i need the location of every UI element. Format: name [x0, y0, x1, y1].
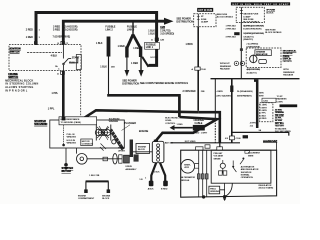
svg-text:1 BLK: 1 BLK: [100, 66, 107, 69]
svg-text:3 PNK BLK: 3 PNK BLK: [226, 36, 237, 38]
svg-text:CONN: CONN: [277, 101, 284, 103]
svg-text:ENGINE: ENGINE: [138, 146, 147, 148]
svg-text:B (W/OVERDRIVE): B (W/OVERDRIVE): [243, 28, 261, 30]
svg-text:2 PNK BLK: 2 PNK BLK: [226, 28, 237, 30]
svg-text:SOLENOID: SOLENOID: [109, 119, 120, 121]
svg-text:SOLENOID: SOLENOID: [34, 123, 47, 126]
svg-text:ENGINE: ENGINE: [78, 195, 87, 197]
svg-text:3 (5-SPEED): 3 (5-SPEED): [160, 33, 174, 36]
svg-text:1 RED: 1 RED: [131, 62, 138, 65]
svg-text:(OVERDRIVE): (OVERDRIVE): [246, 46, 260, 48]
svg-text:SHIFT: SHIFT: [118, 147, 125, 149]
svg-text:8 RED: 8 RED: [260, 118, 267, 120]
svg-text:20 (W/GAUGES): 20 (W/GAUGES): [237, 90, 253, 93]
svg-text:TO GROUND (CASE): TO GROUND (CASE): [61, 121, 82, 124]
svg-text:25B: 25B: [201, 91, 205, 93]
svg-text:25 PPL: 25 PPL: [275, 118, 283, 120]
svg-text:10 AMP: 10 AMP: [243, 15, 251, 18]
svg-text:1 RED: 1 RED: [177, 124, 184, 126]
svg-text:SENSE: SENSE: [214, 158, 222, 160]
svg-text:3 (2-DOOR): 3 (2-DOOR): [65, 28, 78, 31]
svg-text:B (5-SPEED) (W/O OVERDRIVE): B (5-SPEED) (W/O OVERDRIVE): [243, 25, 264, 27]
svg-text:1 WHT: 1 WHT: [201, 133, 208, 135]
svg-text:(W/O GAUGES): (W/O GAUGES): [217, 94, 232, 97]
svg-text:NOT USED: NOT USED: [185, 141, 196, 143]
svg-text:SWITCH: SWITCH: [8, 76, 18, 79]
svg-text:HIGH RESISTANCE: HIGH RESISTANCE: [61, 118, 81, 121]
svg-text:WINDING: WINDING: [67, 137, 77, 139]
svg-text:10 AMP: 10 AMP: [201, 21, 209, 24]
svg-text:1 BLK: 1 BLK: [148, 33, 155, 36]
svg-text:7 (OVERDRIVE): 7 (OVERDRIVE): [53, 35, 71, 38]
svg-text:A CURRENT: A CURRENT: [248, 152, 261, 155]
svg-text:BLOCK DETAILS: BLOCK DETAILS: [217, 16, 234, 19]
svg-text:BLOCK DETAILS: BLOCK DETAILS: [265, 31, 282, 34]
svg-text:FIELD: FIELD: [210, 188, 216, 190]
svg-text:GRY BLK: GRY BLK: [275, 123, 285, 125]
svg-text:LEVER: LEVER: [118, 150, 125, 152]
svg-text:C/CONV FUSE: C/CONV FUSE: [263, 140, 278, 142]
svg-text:1 PNK BLK: 1 PNK BLK: [226, 25, 237, 27]
svg-text:5 RED: 5 RED: [53, 28, 60, 31]
svg-text:2 ORN RED: 2 ORN RED: [183, 90, 196, 93]
svg-text:1 BLK: 1 BLK: [96, 42, 103, 45]
svg-text:TO I/P: TO I/P: [277, 96, 284, 98]
svg-text:GAUGES FUSE: GAUGES FUSE: [243, 13, 259, 16]
svg-text:ATOR: ATOR: [185, 166, 190, 169]
svg-text:WINDING: WINDING: [109, 121, 119, 123]
svg-text:HOT IN RUN: HOT IN RUN: [198, 10, 212, 12]
svg-text:MECHANICAL: MECHANICAL: [283, 49, 297, 52]
svg-text:4 BLK: 4 BLK: [51, 55, 58, 58]
svg-text:BRIDGE: BRIDGE: [181, 180, 190, 182]
svg-text:DISPLAY: DISPLAY: [283, 58, 292, 61]
svg-text:GRN: GRN: [259, 92, 264, 94]
svg-text:AND REGULATOR: AND REGULATOR: [241, 168, 259, 171]
svg-text:(W/AUTO): (W/AUTO): [243, 38, 253, 41]
svg-text:ELECTRONIC: ELECTRONIC: [165, 117, 179, 119]
svg-text:W GAUGES: W GAUGES: [275, 127, 287, 130]
svg-text:SWITCH: SWITCH: [10, 50, 20, 53]
svg-text:A | 14 (W/OVERDRIVE): A | 14 (W/OVERDRIVE): [247, 68, 261, 71]
svg-text:WINDING: WINDING: [67, 143, 77, 145]
svg-text:DRIVE: DRIVE: [126, 166, 133, 168]
svg-text:1 RED: 1 RED: [133, 47, 140, 50]
svg-text:PRNDL: PRNDL: [283, 56, 291, 58]
svg-text:COMPARTMENT: COMPARTMENT: [78, 197, 95, 200]
svg-text:CONTROL: CONTROL: [165, 123, 176, 125]
svg-text:ALTERNATOR: ALTERNATOR: [241, 165, 255, 168]
svg-text:1 BRN: 1 BRN: [186, 43, 193, 46]
svg-text:(W/SEPARATE): (W/SEPARATE): [237, 94, 252, 97]
svg-text:SEE COMPUTERIZED ENGINE CONTRO: SEE COMPUTERIZED ENGINE CONTROLS: [140, 82, 188, 85]
svg-text:OPERATION: OPERATION: [241, 176, 254, 179]
svg-text:BLOCK: BLOCK: [102, 198, 110, 200]
svg-text:1 RED: 1 RED: [26, 36, 33, 39]
svg-text:1 ORN: 1 ORN: [260, 105, 267, 107]
svg-text:2 RED: 2 RED: [26, 29, 33, 32]
svg-text:40 RED: 40 RED: [275, 109, 283, 111]
svg-text:DISTRIBUTION: DISTRIBUTION: [176, 20, 193, 23]
svg-text:30 WHT: 30 WHT: [275, 120, 283, 122]
svg-text:WIRE: WIRE: [248, 155, 254, 157]
svg-text:C200: C200: [263, 100, 269, 102]
svg-text:REGULATOR: REGULATOR: [259, 184, 272, 187]
svg-text:BLOCK: BLOCK: [138, 149, 146, 151]
svg-text:HOLD IN: HOLD IN: [67, 140, 76, 142]
svg-text:ENGINE: ENGINE: [139, 130, 149, 133]
svg-text:PLUNGER: PLUNGER: [124, 122, 136, 125]
svg-text:ASSEMBLY: ASSEMBLY: [126, 168, 138, 171]
svg-text:SEE FUSE: SEE FUSE: [217, 14, 228, 16]
svg-text:CLUSTER: CLUSTER: [283, 53, 293, 55]
svg-text:1 PPL: 1 PPL: [52, 92, 59, 95]
svg-text:RUN: RUN: [69, 61, 74, 64]
svg-text:SEE FUSE: SEE FUSE: [265, 29, 276, 31]
svg-text:TAN WHT: TAN WHT: [275, 125, 285, 128]
svg-text:MOTOR: MOTOR: [62, 170, 71, 173]
svg-text:CHANGE: CHANGE: [256, 50, 266, 53]
svg-text:LED MTR: LED MTR: [283, 61, 293, 63]
svg-text:IN P R N D OR L: IN P R N D OR L: [5, 89, 28, 92]
svg-text:SHOWN IN: SHOWN IN: [241, 172, 252, 174]
svg-text:BAT 30B: BAT 30B: [165, 142, 174, 145]
svg-text:A | (AUTO): A | (AUTO): [247, 72, 257, 75]
svg-text:1 BLK: 1 BLK: [154, 171, 160, 173]
svg-text:FUSE: FUSE: [201, 19, 207, 21]
svg-text:LINK 2: LINK 2: [105, 28, 113, 31]
svg-text:1 RED: 1 RED: [118, 45, 125, 48]
svg-text:CONTACTS: CONTACTS: [82, 143, 94, 146]
svg-text:3 RED: 3 RED: [193, 133, 200, 135]
svg-text:ORANGE: ORANGE: [275, 111, 285, 114]
svg-text:C2B: C2B: [160, 39, 165, 41]
svg-text:NORMAL: NORMAL: [241, 174, 251, 177]
svg-text:BLOCK: BLOCK: [266, 12, 274, 14]
svg-text:C100: C100: [201, 69, 207, 71]
svg-text:HARNESS: HARNESS: [277, 98, 288, 101]
svg-text:YELLOW: YELLOW: [275, 115, 284, 117]
svg-text:MOTOR: MOTOR: [82, 141, 90, 143]
svg-text:1 PPL: 1 PPL: [48, 108, 55, 111]
svg-text:CABLE: CABLE: [195, 122, 203, 125]
svg-text:14 (5-SPEED) (W/OVERDRIVE): 14 (5-SPEED) (W/OVERDRIVE): [243, 33, 264, 35]
svg-text:C100: C100: [236, 138, 242, 140]
svg-text:3 WHT: 3 WHT: [260, 107, 267, 109]
svg-text:PACKAGE: PACKAGE: [283, 74, 294, 77]
svg-text:5 GRN: 5 GRN: [260, 110, 267, 112]
svg-text:23B: 23B: [111, 66, 115, 68]
svg-text:REMINDER: REMINDER: [283, 72, 295, 74]
svg-text:START: START: [72, 56, 80, 59]
svg-text:LINK 3: LINK 3: [127, 28, 135, 31]
svg-text:WHT: WHT: [259, 95, 264, 97]
svg-text:INDICATOR: INDICATOR: [256, 53, 268, 56]
svg-text:BLOCK DETAILS: BLOCK DETAILS: [243, 20, 260, 23]
svg-text:J (5-SPEED): J (5-SPEED): [246, 44, 258, 46]
svg-text:PULL IN: PULL IN: [67, 134, 75, 136]
svg-text:C8 (AUTO): C8 (AUTO): [243, 35, 254, 38]
svg-text:W/O SEP WARN: W/O SEP WARN: [275, 130, 291, 133]
svg-text:VOLTAGE: VOLTAGE: [214, 155, 224, 158]
svg-text:ALTERNATOR: ALTERNATOR: [181, 176, 195, 179]
svg-text:LEVEL: LEVEL: [165, 120, 172, 122]
svg-text:HOT IN RUN, BULB TEST OR START: HOT IN RUN, BULB TEST OR START: [233, 3, 290, 6]
svg-text:PRE-SET: PRE-SET: [214, 153, 224, 155]
svg-text:REMINDER: REMINDER: [220, 66, 232, 68]
svg-text:WITH: WITH: [283, 69, 289, 71]
svg-text:WITHOUT: WITHOUT: [220, 63, 230, 65]
svg-text:PACKAGE: PACKAGE: [220, 68, 231, 71]
svg-text:ENGINE: ENGINE: [102, 195, 111, 197]
svg-text:DISTRIBUTION: DISTRIBUTION: [122, 82, 139, 85]
svg-text:4 RPS: 4 RPS: [250, 123, 257, 125]
svg-text:4 BLK: 4 BLK: [260, 115, 266, 117]
svg-text:WINDING: WINDING: [210, 191, 220, 193]
svg-text:24 C2B: 24 C2B: [150, 57, 158, 59]
svg-text:1 BLK 23B: 1 BLK 23B: [89, 175, 100, 177]
svg-text:LINK 1: LINK 1: [146, 46, 154, 49]
svg-text:(SOLID STATE): (SOLID STATE): [259, 187, 274, 190]
svg-text:4 BRN: 4 BRN: [217, 91, 224, 93]
svg-text:2 PPL: 2 PPL: [260, 113, 267, 115]
svg-text:B RED: B RED: [161, 189, 168, 191]
svg-text:I/P FUSE: I/P FUSE: [266, 10, 275, 12]
svg-text:A BLK: A BLK: [148, 188, 154, 191]
